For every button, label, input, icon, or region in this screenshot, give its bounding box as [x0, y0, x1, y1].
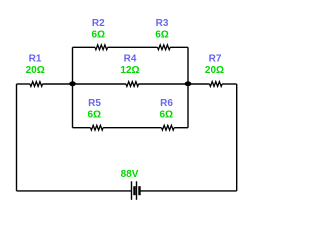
- wire: main rail between R1 and R4: [43, 83, 126, 85]
- svg-text:20Ω: 20Ω: [205, 65, 224, 76]
- resistor R2: [95, 45, 108, 50]
- svg-text:R6: R6: [160, 98, 173, 109]
- svg-text:6Ω: 6Ω: [92, 30, 106, 41]
- battery V1 plate short 2: [138, 186, 140, 195]
- svg-text:R3: R3: [156, 18, 169, 29]
- battery V1 plate short 1: [133, 186, 135, 195]
- wire: right inner vertical: [187, 47, 189, 127]
- wire: bottom right of battery: [140, 190, 237, 192]
- battery V1 plate long 1: [131, 181, 133, 200]
- resistor R3: [158, 45, 171, 50]
- svg-text:R5: R5: [88, 98, 101, 109]
- svg-text:20Ω: 20Ω: [26, 65, 45, 76]
- wire: lower inner rail between R5 and R6: [103, 127, 161, 129]
- wire: lower inner rail left segment: [73, 127, 91, 129]
- svg-text:R1: R1: [29, 54, 42, 65]
- wire: left inner vertical: [72, 47, 74, 127]
- wire: bottom left of battery: [17, 190, 132, 192]
- resistor R1: [30, 82, 43, 87]
- wire: top rail right segment: [170, 46, 188, 48]
- svg-text:6Ω: 6Ω: [160, 110, 174, 121]
- wire: outer left vertical: [16, 84, 18, 191]
- svg-text:R2: R2: [92, 18, 105, 29]
- svg-text:6Ω: 6Ω: [155, 30, 169, 41]
- svg-text:R4: R4: [124, 54, 137, 65]
- wire: main middle rail left segment: [17, 83, 31, 85]
- wire: lower inner rail right segment: [174, 127, 188, 129]
- wire: top rail between R2 and R3: [108, 46, 158, 48]
- wire: main rail right segment: [222, 83, 237, 85]
- resistor R6: [162, 125, 175, 130]
- battery V1 plate long 2: [136, 181, 138, 200]
- resistor R5: [91, 125, 104, 130]
- wire: main rail between R4 and R7: [139, 83, 210, 85]
- node B junction dot right: [185, 81, 192, 86]
- svg-text:R7: R7: [209, 54, 222, 65]
- wire: top rail left segment: [73, 46, 96, 48]
- svg-text:12Ω: 12Ω: [120, 65, 139, 76]
- svg-text:88V: 88V: [121, 169, 139, 180]
- svg-text:6Ω: 6Ω: [88, 110, 102, 121]
- wire: outer right vertical: [236, 84, 238, 191]
- node A junction dot left: [69, 81, 76, 86]
- resistor R7: [210, 82, 223, 87]
- resistor R4: [126, 82, 139, 87]
